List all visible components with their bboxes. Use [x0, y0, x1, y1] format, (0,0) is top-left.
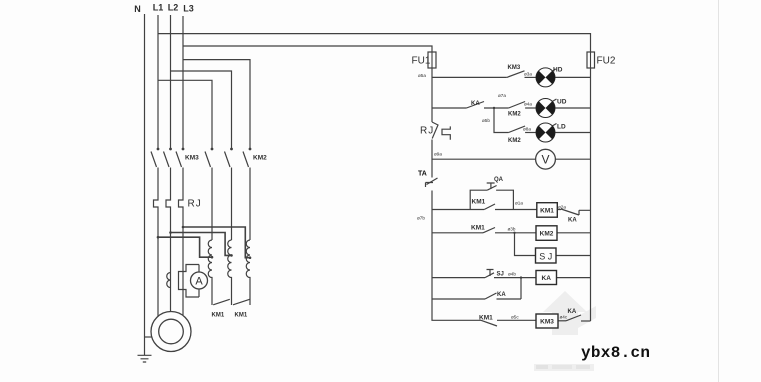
svg-text:KA: KA: [568, 218, 577, 224]
svg-text:RJ: RJ: [188, 199, 202, 210]
svg-text:SJ: SJ: [497, 272, 504, 278]
svg-text:KA: KA: [471, 101, 480, 107]
svg-text:ø4c: ø4c: [560, 315, 568, 320]
svg-text:KM3: KM3: [540, 319, 554, 326]
svg-text:ø7b: ø7b: [417, 216, 425, 221]
svg-text:RJ: RJ: [420, 126, 434, 137]
svg-text:KA: KA: [542, 275, 552, 282]
svg-text:ø5b: ø5b: [482, 118, 490, 123]
svg-text:ø1a: ø1a: [515, 201, 523, 206]
svg-text:UD: UD: [557, 99, 567, 106]
svg-text:ø5a: ø5a: [418, 73, 426, 78]
svg-text:ø4b: ø4b: [508, 272, 516, 277]
svg-text:ø4a: ø4a: [524, 102, 532, 107]
svg-text:KM3: KM3: [185, 155, 199, 162]
svg-text:L1: L1: [153, 3, 164, 13]
svg-text:KM1: KM1: [472, 199, 486, 206]
svg-text:ø3a: ø3a: [524, 72, 532, 77]
svg-text:HD: HD: [553, 67, 563, 74]
svg-text:KA: KA: [568, 309, 577, 315]
svg-text:TA: TA: [418, 171, 427, 178]
svg-text:KM1: KM1: [212, 313, 225, 319]
svg-text:ø9a: ø9a: [434, 152, 442, 157]
svg-text:KM2: KM2: [540, 231, 554, 238]
svg-text:ø5c: ø5c: [511, 315, 519, 320]
svg-text:KA: KA: [497, 292, 506, 298]
svg-text:A: A: [195, 276, 203, 288]
svg-text:ø2a: ø2a: [558, 205, 566, 210]
svg-text:KM2: KM2: [508, 112, 521, 118]
svg-text:FU2: FU2: [597, 56, 616, 67]
svg-text:L3: L3: [183, 4, 194, 14]
svg-text:LD: LD: [557, 124, 566, 131]
svg-text:KM1: KM1: [471, 225, 485, 232]
svg-text:KM1: KM1: [479, 315, 493, 322]
svg-text:ybx8.cn: ybx8.cn: [581, 344, 650, 362]
svg-text:ø8a: ø8a: [523, 127, 531, 132]
svg-text:S J: S J: [539, 252, 552, 262]
svg-text:QA: QA: [494, 177, 504, 183]
svg-text:ø7a: ø7a: [498, 93, 506, 98]
svg-text:V: V: [541, 153, 549, 167]
svg-text:KM1: KM1: [235, 313, 248, 319]
svg-text:ø3b: ø3b: [508, 227, 516, 232]
svg-text:KM1: KM1: [540, 208, 554, 215]
svg-text:L2: L2: [168, 3, 179, 13]
svg-text:KM2: KM2: [508, 138, 521, 144]
svg-text:N: N: [134, 4, 141, 14]
svg-text:KM3: KM3: [508, 65, 521, 71]
svg-text:KM2: KM2: [253, 155, 267, 162]
svg-text:FU1: FU1: [412, 56, 431, 67]
